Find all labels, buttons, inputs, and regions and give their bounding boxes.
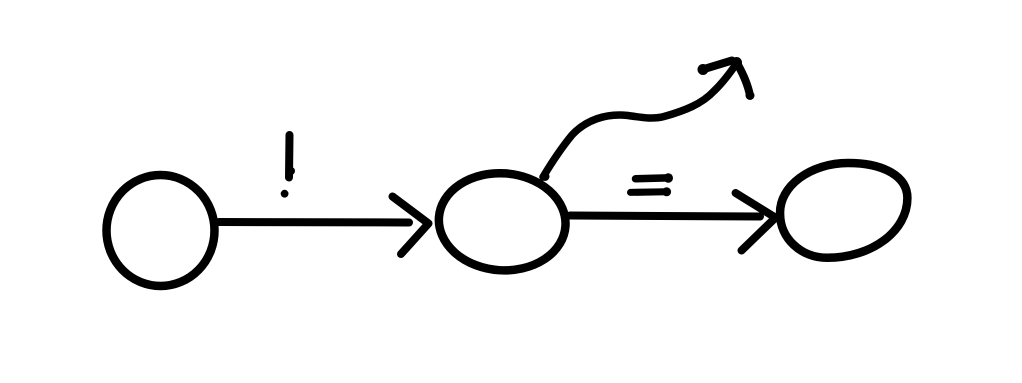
wire: curved arrow from node B going up-right [541,64,737,182]
label ! on arrow 1 [281,135,295,198]
node B (middle ellipse) [436,169,569,275]
arrowhead of arrow 2 [736,193,776,251]
node C (right ellipse) [780,163,907,258]
arrowhead of curved arrow [698,57,755,100]
arrowhead of arrow 1 [393,197,429,255]
wire: arrow 1 shaft [219,218,409,227]
node A (left circle) [107,175,215,286]
label = on arrow 2 [631,173,674,196]
wire: arrow 2 shaft [570,216,760,217]
